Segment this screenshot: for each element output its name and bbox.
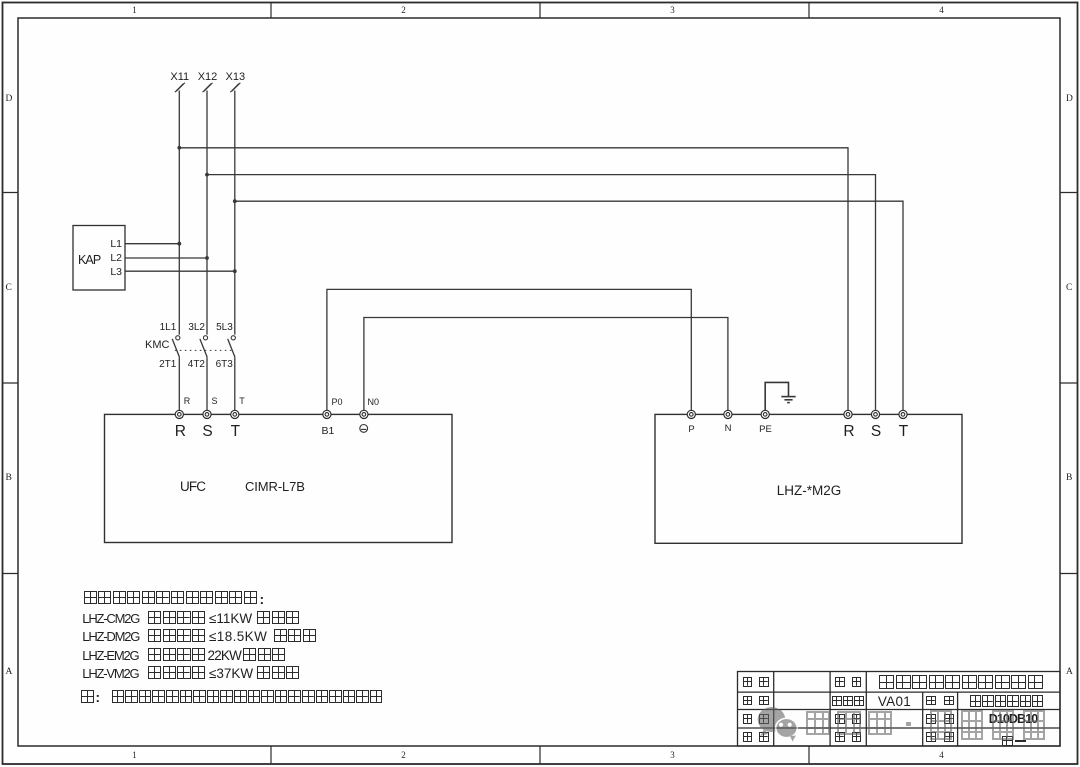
label UFC T bbox=[231, 424, 240, 440]
wire B1 to LHZ P bbox=[327, 289, 691, 410]
terminal UFC T bbox=[231, 410, 239, 418]
label 3L2 bbox=[188, 323, 205, 333]
label N0 bbox=[368, 398, 380, 407]
note line 4 bbox=[82, 649, 138, 662]
label X13 bbox=[226, 72, 246, 83]
wire KAP L2 bbox=[125, 257, 207, 259]
wire X13 to KMC 5L3 bbox=[234, 91, 236, 335]
contactor KMC pole 5L3-6T3 bbox=[228, 336, 236, 411]
label T (wire) bbox=[239, 397, 245, 406]
watermark text GongZhongHao bbox=[0, 0, 1080, 1]
label ShenHe bbox=[743, 732, 753, 742]
label 1L1 bbox=[160, 323, 177, 333]
regen unit LHZ-*M2G box bbox=[655, 414, 962, 543]
label 5L3 bbox=[216, 323, 233, 333]
label KMC bbox=[145, 340, 169, 351]
terminal X12 bbox=[203, 83, 213, 92]
label X11 bbox=[170, 72, 189, 83]
label L2 bbox=[110, 253, 122, 264]
terminal LHZ T bbox=[899, 410, 907, 418]
label X12 bbox=[198, 72, 218, 83]
label 2T1 bbox=[159, 360, 176, 370]
junction J2 bbox=[205, 173, 209, 177]
label PE bbox=[759, 425, 772, 435]
note line 1 bbox=[84, 591, 259, 604]
terminal LHZ S bbox=[871, 410, 879, 418]
note line 5 bbox=[82, 667, 138, 680]
label P0 bbox=[332, 398, 343, 407]
label LHZ S bbox=[871, 424, 881, 440]
terminal UFC B1 bbox=[323, 410, 331, 418]
label UFC R bbox=[175, 424, 186, 440]
junction J3 bbox=[233, 199, 237, 203]
terminal LHZ P bbox=[687, 410, 695, 418]
label ShenDing bbox=[835, 714, 845, 724]
terminal LHZ R bbox=[844, 410, 852, 418]
label UFC bbox=[180, 480, 205, 494]
label GongYi bbox=[743, 696, 753, 706]
terminal X13 bbox=[230, 83, 240, 92]
note line 6 bbox=[81, 690, 95, 703]
wire KAP L1 bbox=[125, 243, 179, 245]
label UFC S bbox=[202, 424, 212, 440]
label L1 bbox=[110, 239, 122, 250]
terminal LHZ PE bbox=[761, 410, 769, 418]
label KAP bbox=[78, 254, 100, 267]
label TuMing bbox=[926, 696, 936, 706]
drawing name ZaiShengNengLiangFanKui bbox=[970, 695, 1044, 707]
terminal X11 bbox=[175, 83, 185, 92]
terminal LHZ N bbox=[724, 410, 732, 418]
company name KangLi elevator bbox=[879, 675, 1044, 690]
wire KAP L3 bbox=[125, 270, 235, 272]
label BiaoZhunHua bbox=[832, 696, 866, 706]
label P bbox=[688, 425, 694, 435]
label B1 bbox=[321, 426, 334, 437]
ground symbol bbox=[781, 397, 795, 403]
label JiaoDui bbox=[743, 714, 753, 724]
label L3 bbox=[110, 267, 122, 278]
note line 2 bbox=[82, 612, 139, 625]
label 4T2 bbox=[188, 360, 205, 370]
label TuHao bbox=[926, 714, 936, 724]
value VA01 bbox=[878, 695, 911, 709]
terminal UFC R bbox=[175, 410, 183, 418]
wire X12 to KMC 3L2 bbox=[206, 91, 208, 335]
wire LHZ PE to earth bbox=[765, 382, 788, 410]
contactor KMC pole 1L1-2T1 bbox=[172, 336, 180, 411]
label N bbox=[725, 424, 732, 434]
junction J5 bbox=[205, 256, 209, 260]
contactor KMC pole 3L2-4T2 bbox=[200, 336, 208, 411]
junction J4 bbox=[177, 242, 181, 246]
label S (wire) bbox=[212, 397, 218, 406]
wire N0 to LHZ N bbox=[364, 318, 728, 411]
junction J1 bbox=[177, 146, 181, 150]
label SheJi bbox=[743, 677, 753, 687]
terminal UFC S bbox=[203, 410, 211, 418]
label 6T3 bbox=[216, 360, 233, 370]
label LHZ R bbox=[843, 424, 854, 440]
label CIMR-L7B bbox=[245, 480, 305, 493]
drawing number D10DB10 bbox=[989, 713, 1038, 726]
label LHZ T bbox=[899, 424, 908, 440]
label LHZ-*M2G bbox=[777, 484, 842, 498]
note line 3 bbox=[82, 630, 139, 643]
label DanWei bbox=[835, 677, 845, 687]
label RiQi bbox=[835, 732, 845, 742]
relay KAP bbox=[73, 226, 125, 291]
terminal UFC N0 bbox=[360, 410, 368, 418]
wire X12 branch to LHZ S bbox=[207, 175, 876, 411]
junction J6 bbox=[233, 269, 237, 273]
wire X11 branch to LHZ R bbox=[179, 148, 848, 411]
contactor KMC linkage (dashed) bbox=[175, 349, 232, 351]
symbol circle-minus (N0) bbox=[360, 425, 368, 433]
label R (wire) bbox=[184, 397, 191, 406]
wire X13 branch to LHZ T bbox=[235, 201, 903, 410]
wire X11 to KMC 1L1 bbox=[178, 91, 180, 335]
page number FuYi bbox=[1002, 736, 1015, 747]
inverter UFC CIMR-L7B box bbox=[105, 414, 453, 542]
label YeHao bbox=[926, 732, 936, 742]
